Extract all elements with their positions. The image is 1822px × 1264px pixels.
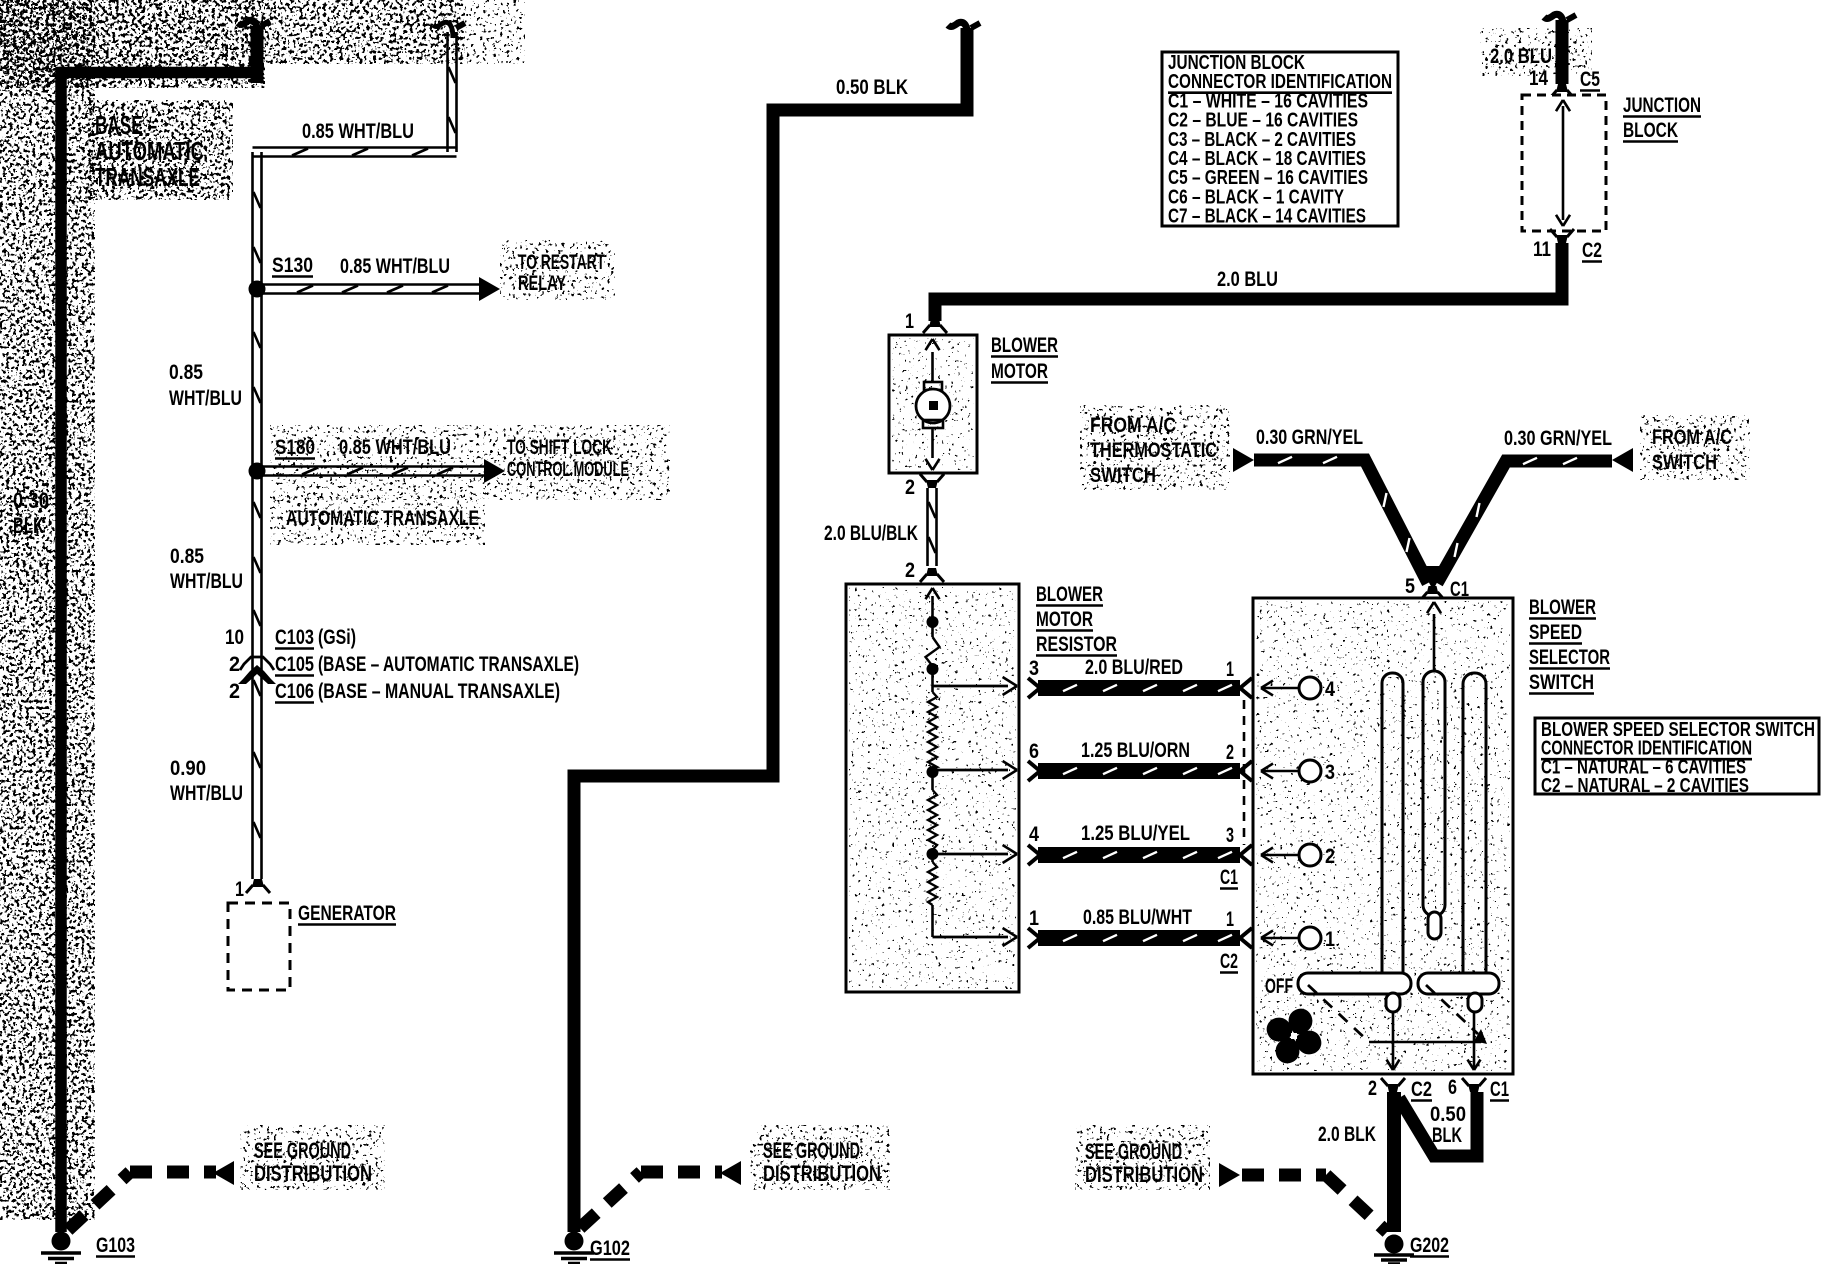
resistor internal arrow up at pin 2 xyxy=(926,588,933,599)
switch slot 1 bottom nub xyxy=(1386,993,1400,1012)
svg-text:C106: C106 xyxy=(275,680,314,703)
in-line connector symbol C105 xyxy=(240,657,274,670)
connector at generator pin 1 xyxy=(252,879,264,887)
switch contact 4 xyxy=(1299,677,1321,699)
svg-text:C103: C103 xyxy=(275,626,314,649)
svg-text:BLOWER: BLOWER xyxy=(1036,583,1103,606)
wire 0.85 WHT/BLU main vertical xyxy=(251,152,254,879)
svg-text:2: 2 xyxy=(229,653,240,676)
svg-text:2: 2 xyxy=(1325,845,1335,868)
svg-text:0.85: 0.85 xyxy=(169,361,203,384)
svg-text:2: 2 xyxy=(905,476,915,499)
svg-text:DISTRIBUTION: DISTRIBUTION xyxy=(1085,1162,1203,1187)
arrow ground distribution G102 xyxy=(720,1161,741,1185)
wire 0.30 GRN/YEL right xyxy=(1437,461,1612,583)
svg-text:2.0 BLU/BLK: 2.0 BLU/BLK xyxy=(824,522,918,545)
switch contact 3 xyxy=(1299,760,1321,782)
svg-text:G202: G202 xyxy=(1410,1234,1449,1257)
switch slot 3 xyxy=(1463,673,1486,993)
arrow ground distribution G103 xyxy=(213,1161,234,1185)
svg-text:1: 1 xyxy=(1325,928,1335,951)
svg-text:SEE GROUND: SEE GROUND xyxy=(763,1138,860,1163)
ground G103 symbol xyxy=(52,1232,71,1251)
wire 2.0 BLU from top to junction block C5 xyxy=(1556,20,1569,84)
svg-text:BLOCK: BLOCK xyxy=(1623,119,1678,142)
svg-text:2.0 BLU/RED: 2.0 BLU/RED xyxy=(1085,656,1183,679)
svg-text:2.0 BLK: 2.0 BLK xyxy=(1318,1123,1376,1146)
splice S130 xyxy=(249,281,266,298)
svg-text:(GSi): (GSi) xyxy=(318,626,356,649)
svg-text:C2: C2 xyxy=(1582,239,1602,262)
svg-text:0.30: 0.30 xyxy=(13,488,49,513)
svg-text:BLOWER: BLOWER xyxy=(991,334,1058,357)
wire 1.25 BLU/ORN (resistor 6 to switch 2) xyxy=(1028,761,1040,771)
svg-text:CONTROL MODULE: CONTROL MODULE xyxy=(507,458,629,481)
junction block pin 14 C5 connector xyxy=(1556,84,1568,92)
wire 0.30 GRN/YEL left xyxy=(1254,460,1428,583)
svg-text:5: 5 xyxy=(1405,575,1415,598)
ground G202 symbol xyxy=(1385,1235,1404,1254)
svg-text:SEE GROUND: SEE GROUND xyxy=(1085,1139,1182,1164)
svg-text:FROM A/C: FROM A/C xyxy=(1652,426,1732,449)
blower motor box xyxy=(889,335,977,473)
svg-text:JUNCTION: JUNCTION xyxy=(1623,94,1701,117)
svg-text:(BASE – MANUAL TRANSAXLE): (BASE – MANUAL TRANSAXLE) xyxy=(318,680,560,703)
svg-text:4: 4 xyxy=(1029,823,1039,846)
wire 0.50 BLK from pin 6 C1 xyxy=(1399,1092,1477,1156)
wire 0.85 WHT/BLU branch to restart relay xyxy=(263,283,487,286)
svg-text:TO RESTART: TO RESTART xyxy=(518,251,605,274)
svg-text:0.50: 0.50 xyxy=(1430,1103,1466,1126)
svg-text:11: 11 xyxy=(1533,238,1551,261)
wire 0.85 WHT/BLU horizontal jog xyxy=(253,146,457,149)
switch slot 3 bottom nub xyxy=(1468,993,1482,1012)
switch OFF contact bar xyxy=(1298,973,1411,994)
svg-text:0.85 BLU/WHT: 0.85 BLU/WHT xyxy=(1083,906,1192,929)
wire 0.50 BLK xyxy=(574,28,967,1232)
resistor tap branch to pin 4 xyxy=(933,853,1009,856)
svg-text:OFF: OFF xyxy=(1265,975,1293,998)
svg-text:1: 1 xyxy=(235,878,244,901)
resistor tap junction dots xyxy=(927,616,939,628)
svg-text:2: 2 xyxy=(229,680,240,703)
blower speed selector switch connector identification table xyxy=(1535,718,1819,794)
motor symbol M1 xyxy=(924,382,942,390)
ground G102 symbol xyxy=(565,1232,584,1251)
generator dashed box xyxy=(228,903,290,990)
svg-text:1.25 BLU/YEL: 1.25 BLU/YEL xyxy=(1081,822,1190,845)
resistor tap branch to pin 1 xyxy=(933,936,1009,939)
svg-text:6: 6 xyxy=(1029,740,1039,763)
svg-text:S180: S180 xyxy=(275,436,315,459)
svg-text:C1: C1 xyxy=(1220,866,1238,889)
svg-text:2.0 BLU: 2.0 BLU xyxy=(1217,268,1278,291)
svg-text:SPEED: SPEED xyxy=(1529,621,1582,644)
svg-text:G102: G102 xyxy=(590,1237,630,1260)
svg-text:C2: C2 xyxy=(1411,1078,1432,1101)
ground G202 dashed wire xyxy=(1219,1163,1240,1187)
svg-text:1: 1 xyxy=(905,310,914,333)
svg-text:C2 – NATURAL – 2 CAVITIES: C2 – NATURAL – 2 CAVITIES xyxy=(1541,775,1749,797)
switch dashed linkage from second bar xyxy=(1426,985,1478,1034)
svg-text:0.85 WHT/BLU: 0.85 WHT/BLU xyxy=(339,436,451,459)
svg-text:AUTOMATIC TRANSAXLE: AUTOMATIC TRANSAXLE xyxy=(286,507,479,530)
svg-text:4: 4 xyxy=(1325,678,1335,701)
svg-text:DISTRIBUTION: DISTRIBUTION xyxy=(254,1161,372,1186)
svg-text:6: 6 xyxy=(1448,1076,1457,1099)
dashed connector C1 grouping line xyxy=(1243,700,1246,845)
wire 2.0 BLU from junction block to blower motor xyxy=(935,243,1562,321)
svg-text:0.30 GRN/YEL: 0.30 GRN/YEL xyxy=(1256,426,1363,449)
svg-text:10: 10 xyxy=(225,626,244,649)
svg-text:FROM A/C: FROM A/C xyxy=(1090,414,1176,437)
svg-text:14: 14 xyxy=(1529,67,1548,90)
svg-text:0.85 WHT/BLU: 0.85 WHT/BLU xyxy=(302,120,414,143)
blower motor internal arrow up xyxy=(931,352,934,383)
resistor tap branch to pin 3 xyxy=(933,685,1009,688)
switch second contact bar xyxy=(1418,973,1499,994)
svg-text:0.30 GRN/YEL: 0.30 GRN/YEL xyxy=(1504,427,1612,450)
svg-text:BLK: BLK xyxy=(13,513,44,538)
svg-text:SWITCH: SWITCH xyxy=(1652,451,1717,474)
svg-text:2.0 BLU: 2.0 BLU xyxy=(1490,45,1552,68)
junction block pin 11 C2 connector xyxy=(1556,235,1568,243)
svg-text:WHT/BLU: WHT/BLU xyxy=(170,782,243,805)
wire 0.85 BLU/WHT (resistor 1 to switch 1) xyxy=(1028,928,1040,938)
blower speed selector switch box xyxy=(1253,598,1513,1074)
svg-text:RESISTOR: RESISTOR xyxy=(1036,633,1117,656)
svg-text:WHT/BLU: WHT/BLU xyxy=(170,570,243,593)
wire 2.0 BLK to ground G202 xyxy=(1387,1092,1401,1232)
svg-text:SWITCH: SWITCH xyxy=(1529,671,1594,694)
switch slot 2 bottom nub xyxy=(1428,912,1441,939)
svg-text:0.90: 0.90 xyxy=(170,757,206,780)
splice S180 xyxy=(249,463,266,480)
svg-text:1: 1 xyxy=(1226,908,1234,931)
svg-text:3: 3 xyxy=(1226,824,1234,847)
switch pin 2 C2 connector xyxy=(1387,1084,1399,1092)
switch internal arrow up to pin 5 xyxy=(1433,614,1436,671)
switch output line to pin 2 C2 xyxy=(1392,1012,1395,1068)
switch slot 2 (middle) xyxy=(1423,671,1445,916)
svg-text:BLK: BLK xyxy=(1432,1124,1462,1147)
svg-text:G103: G103 xyxy=(96,1234,135,1257)
svg-text:C7 – BLACK – 14 CAVITIES: C7 – BLACK – 14 CAVITIES xyxy=(1168,206,1366,228)
switch linkage horizontal xyxy=(1369,1041,1481,1044)
svg-text:0.50 BLK: 0.50 BLK xyxy=(836,76,908,99)
svg-text:C105: C105 xyxy=(275,653,314,676)
svg-text:TO SHIFT LOCK: TO SHIFT LOCK xyxy=(507,436,612,459)
ground G102 dashed wire xyxy=(580,1172,641,1228)
svg-text:RELAY: RELAY xyxy=(518,272,566,295)
svg-text:SEE GROUND: SEE GROUND xyxy=(254,1138,351,1163)
arrow from A/C thermostatic switch xyxy=(1233,448,1254,472)
svg-text:3: 3 xyxy=(1325,761,1335,784)
svg-text:C5: C5 xyxy=(1580,68,1600,91)
junction block dashed box xyxy=(1522,95,1606,231)
svg-text:TRANSAXLE: TRANSAXLE xyxy=(95,162,200,192)
off-page connector hook 0.50 BLK top xyxy=(948,22,968,38)
switch contact 2 xyxy=(1299,844,1321,866)
wire stub up to off-page arrow top-left xyxy=(251,26,264,83)
wire 2.0 BLU/BLK xyxy=(926,488,929,566)
arrow from A/C switch xyxy=(1612,448,1633,472)
svg-text:C1: C1 xyxy=(1490,1078,1509,1101)
resistor element R1 vertical with zigzag xyxy=(931,596,934,637)
svg-text:S130: S130 xyxy=(272,254,313,277)
svg-text:THERMOSTATIC: THERMOSTATIC xyxy=(1090,439,1217,462)
switch contact 1 xyxy=(1299,927,1321,949)
svg-text:BLOWER: BLOWER xyxy=(1529,596,1596,619)
blower motor internal arrow down xyxy=(931,428,934,458)
svg-text:GENERATOR: GENERATOR xyxy=(298,902,396,925)
svg-text:(BASE – AUTOMATIC TRANSAXLE): (BASE – AUTOMATIC TRANSAXLE) xyxy=(318,653,579,676)
arrow to restart relay xyxy=(479,277,500,301)
junction block connector identification table xyxy=(1162,52,1398,226)
switch slot 1 xyxy=(1382,673,1403,993)
wire 0.85 WHT/BLU branch to shift lock control module xyxy=(263,465,492,468)
svg-text:SWITCH: SWITCH xyxy=(1090,464,1156,487)
wire 0.85 WHT/BLU vertical from top hook xyxy=(446,32,449,152)
resistor tap branch to pin 6 xyxy=(933,769,1009,772)
wire 2.0 BLU/RED (resistor 3 to switch 1) xyxy=(1028,678,1040,688)
junction block internal wire double arrow xyxy=(1562,106,1565,220)
svg-text:SELECTOR: SELECTOR xyxy=(1529,646,1610,669)
svg-text:0.85: 0.85 xyxy=(170,545,204,568)
switch output line to pin 6 C1 xyxy=(1473,1012,1476,1068)
wire 1.25 BLU/YEL (resistor 4 to switch 3) xyxy=(1028,845,1040,855)
svg-text:1.25 BLU/ORN: 1.25 BLU/ORN xyxy=(1081,739,1190,762)
ground G103 dashed wire to ground distribution xyxy=(68,1172,130,1230)
wire 0.30 BLK thick from generator circuit to ground G103 xyxy=(61,73,257,1233)
off-page connector hook for WHT/BLU wire at top xyxy=(433,22,453,38)
off-page connector hook 2.0 BLU top right xyxy=(1544,14,1564,30)
switch pin 6 C1 connector xyxy=(1468,1084,1480,1092)
fan icon xyxy=(1263,1005,1324,1066)
svg-text:0.85 WHT/BLU: 0.85 WHT/BLU xyxy=(340,255,450,278)
svg-text:2: 2 xyxy=(1368,1077,1377,1100)
svg-text:1: 1 xyxy=(1226,658,1234,681)
svg-text:1: 1 xyxy=(1029,907,1039,930)
arrow to shift lock control module xyxy=(484,459,505,483)
svg-text:3: 3 xyxy=(1029,657,1039,680)
svg-text:WHT/BLU: WHT/BLU xyxy=(169,387,242,410)
svg-text:2: 2 xyxy=(905,559,915,582)
svg-text:MOTOR: MOTOR xyxy=(991,360,1048,383)
svg-text:DISTRIBUTION: DISTRIBUTION xyxy=(763,1161,881,1186)
switch dashed linkage from OFF bar xyxy=(1308,985,1369,1042)
blower motor resistor box xyxy=(846,584,1019,992)
off-page connector hook top-left xyxy=(238,20,258,36)
svg-text:C2: C2 xyxy=(1220,950,1238,973)
svg-text:2: 2 xyxy=(1226,741,1234,764)
svg-text:MOTOR: MOTOR xyxy=(1036,608,1093,631)
